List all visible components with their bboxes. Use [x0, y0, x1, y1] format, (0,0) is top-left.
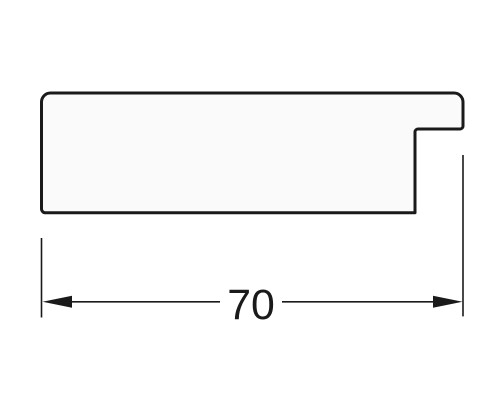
svg-text:70: 70: [227, 281, 275, 329]
